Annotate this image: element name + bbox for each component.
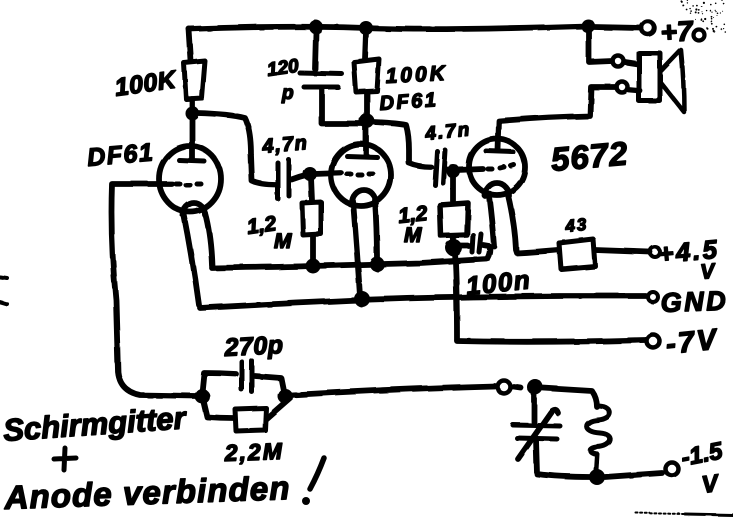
tube V3 5672	[469, 139, 557, 253]
svg-text:270p: 270p	[223, 331, 284, 362]
wire plate V3 to speaker lower terminal	[498, 87, 616, 150]
svg-text:GND: GND	[660, 286, 729, 318]
node +4.5V terminal	[650, 247, 660, 257]
node junction V2 filament right leg	[370, 257, 385, 272]
wire top supply rail	[189, 26, 588, 29]
node tank top junction	[527, 379, 543, 395]
resistor R7 zigzag	[587, 406, 611, 470]
wire grid V3 tank feed (Schirmgitter wire) already drawn with grid V1; node left of RC	[195, 389, 210, 404]
svg-text:DF61: DF61	[86, 138, 155, 172]
resistor R4 1,2M	[440, 203, 468, 245]
node tank bottom junction	[589, 469, 605, 485]
resistor R2 100K	[354, 32, 379, 117]
node junction below R1	[185, 106, 199, 120]
wire junction R4 down to -7V line	[455, 252, 457, 340]
wire left drop from rail to R1	[189, 29, 191, 61]
wire junction R1 to C1	[197, 113, 276, 185]
resistor R3 1,2M	[302, 202, 321, 262]
resistor R1 100K	[184, 61, 205, 109]
resistor R5 43	[559, 239, 650, 269]
svg-text:100K: 100K	[385, 62, 448, 88]
svg-text:+7: +7	[660, 15, 695, 48]
tube V2 DF61	[331, 144, 391, 296]
node -1.5V terminal	[666, 463, 679, 476]
svg-text:M: M	[274, 230, 292, 253]
resistor R6 2,2M bottom branch	[203, 398, 290, 431]
bottom scan line	[636, 513, 685, 514]
node junction V2 filament left leg on ground	[354, 291, 370, 307]
scan speckle top-right	[681, 0, 727, 33]
svg-text:43: 43	[563, 215, 589, 236]
wire filament rail A	[212, 248, 490, 268]
wire plate lead V1	[189, 113, 195, 160]
node antenna open terminal	[498, 381, 511, 394]
node junction grid V3	[446, 164, 460, 178]
wire dash between terminals	[514, 387, 521, 388]
note text plus	[54, 448, 76, 470]
edge tick marks	[0, 277, 7, 304]
svg-text:120: 120	[266, 56, 301, 81]
node junction below R4	[446, 240, 463, 257]
capacitor C1 4,7n	[278, 160, 308, 199]
node -7V terminal	[647, 335, 660, 348]
wire ground rail	[200, 296, 646, 308]
svg-text:4,7n: 4,7n	[261, 132, 310, 158]
wire C6 bottom to tank bottom	[536, 439, 590, 477]
capacitor C2 120p	[300, 32, 363, 124]
svg-text:2,2M: 2,2M	[223, 438, 284, 466]
wire tank top down to C6	[531, 394, 537, 422]
node speaker upper terminal	[613, 56, 624, 67]
svg-text:p: p	[281, 83, 294, 104]
node +70 terminal	[642, 22, 655, 35]
wire junction to grid V2	[314, 173, 341, 174]
speaker LS1	[625, 50, 684, 112]
svg-text:5672: 5672	[549, 134, 629, 178]
capacitor C4 100n	[460, 234, 489, 252]
wire tank bottom to -1.5 terminal	[605, 473, 662, 477]
wire junction R2 to C3	[373, 122, 431, 167]
svg-text:M: M	[404, 224, 422, 247]
wire tank top to R7	[543, 388, 597, 407]
wire -7V line	[457, 340, 645, 342]
wire junction down to R4	[450, 174, 456, 201]
wire plate lead V2	[363, 121, 369, 155]
node junction below R2	[360, 114, 375, 129]
node speaker lower terminal	[617, 82, 628, 93]
node junction top rail to 100K right	[359, 21, 373, 35]
svg-text:-7V: -7V	[664, 324, 720, 361]
wire junction down to R3	[311, 177, 312, 201]
wire RC to antenna terminal	[291, 386, 495, 395]
capacitor C3 4.7n	[435, 150, 452, 185]
capacitor C5 270p top branch	[202, 361, 284, 393]
note text exclamation	[302, 458, 324, 505]
node right of RC	[278, 389, 293, 404]
wire junction to grid V3	[457, 169, 483, 170]
capacitor C6 variable	[513, 410, 560, 459]
tube V1 DF61	[159, 146, 221, 305]
node junction top rail to 120p	[309, 20, 323, 34]
node junction grid V2	[303, 167, 317, 181]
node junction R3 on filament rail	[306, 259, 321, 274]
node junction top rail at speaker branch	[581, 19, 595, 33]
node GND terminal	[648, 292, 658, 302]
wire speaker branch from rail	[589, 28, 612, 62]
wire top rail to +70 terminal	[594, 27, 641, 28]
wire grid V1 left	[112, 184, 197, 396]
svg-text:DF61: DF61	[379, 89, 439, 115]
